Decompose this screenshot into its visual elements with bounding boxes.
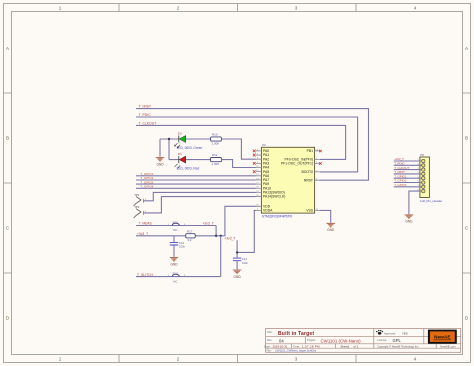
wire T_GPIO3 to PA9: [136, 183, 256, 185]
svg-text:GND: GND: [327, 228, 335, 232]
svg-text:BOOT0: BOOT0: [302, 170, 314, 174]
svg-text:R18: R18: [173, 272, 179, 276]
wire header pin4: [394, 173, 422, 175]
capacitor C14: [233, 257, 249, 270]
wire T_GPIO1 to PA6: [136, 175, 256, 177]
wire R11 to PA4: [221, 160, 256, 168]
svg-text:Built in Target: Built in Target: [278, 331, 314, 337]
svg-text:LED, 0603, Green: LED, 0603, Green: [177, 146, 203, 150]
resistor R17: [186, 230, 195, 242]
svg-text:Project:: Project:: [307, 338, 316, 342]
svg-text:NewAE.com: NewAE.com: [440, 345, 456, 349]
svg-text:of 1: of 1: [354, 345, 359, 349]
wire VSS to GND: [320, 210, 331, 222]
svg-text:1x8_Pin_Header: 1x8_Pin_Header: [420, 199, 442, 203]
svg-text:1.00K: 1.00K: [212, 141, 220, 145]
svg-text:GND: GND: [170, 262, 178, 266]
pin stubs U2 right: [315, 151, 320, 211]
svg-text:100n: 100n: [179, 245, 185, 249]
wire T_GLITCH: [136, 276, 221, 278]
svg-text:D5: D5: [178, 131, 182, 135]
svg-text:2.2: 2.2: [188, 238, 192, 242]
svg-text:1.00K: 1.00K: [212, 162, 220, 166]
svg-text:PF1-OSC_OUT(PF1): PF1-OSC_OUT(PF1): [281, 162, 313, 166]
svg-text:Time:: Time:: [293, 345, 300, 349]
svg-text:T_CLKOUT: T_CLKOUT: [139, 121, 157, 125]
wire TP2 to PA14: [143, 197, 256, 213]
ground GND header: [405, 215, 413, 224]
ground GND under C13: [170, 258, 178, 267]
wire T_CLKOUT to PF0: [136, 125, 346, 159]
svg-text:R10: R10: [212, 132, 218, 136]
svg-text:4: 4: [414, 357, 417, 362]
svg-text:100n: 100n: [242, 261, 248, 265]
svg-text:1:07:28 PM: 1:07:28 PM: [302, 345, 320, 349]
resistor R10: [211, 132, 222, 145]
svg-text:2019-10-31: 2019-10-31: [273, 345, 288, 349]
svg-text:D6: D6: [178, 152, 182, 156]
svg-text:NC: NC: [173, 279, 177, 283]
pin numbers connector: [417, 159, 419, 191]
svg-text:C14: C14: [242, 257, 248, 261]
svg-text:Title:: Title:: [267, 330, 273, 334]
connector pins: [422, 159, 425, 193]
svg-text:+3v3_T: +3v3_T: [137, 232, 148, 236]
svg-text:C13: C13: [179, 241, 185, 245]
node junction glitch branch: [220, 235, 222, 237]
svg-text:File:: File:: [267, 349, 272, 353]
resistor R18 NC: [168, 272, 187, 284]
wire header pin8 to GND: [409, 191, 422, 214]
svg-text:U2: U2: [262, 143, 266, 147]
wire T_PDIC to BOOT0: [136, 117, 358, 172]
svg-text:04: 04: [279, 338, 284, 343]
svg-text:LED, 0603, Red: LED, 0603, Red: [177, 167, 200, 171]
pin numbers U2 right: [316, 149, 319, 211]
svg-text:R17: R17: [187, 230, 193, 234]
svg-text:T_GPIO4: T_GPIO4: [140, 185, 153, 189]
wire +3v3_T row to VDD: [136, 206, 256, 236]
title block: [266, 329, 461, 353]
wire D6 to R11: [186, 159, 211, 161]
svg-text:2: 2: [177, 357, 180, 362]
svg-text:CW1101 (CW-Nano): CW1101 (CW-Nano): [321, 338, 362, 343]
wire D5 to R10: [186, 138, 211, 140]
wire T_nRST to NRST: [136, 109, 369, 181]
test point TP2: [134, 205, 147, 218]
approved paw icon: [376, 330, 383, 335]
svg-text:GND: GND: [156, 162, 164, 166]
svg-text:B: B: [6, 136, 9, 141]
svg-text:Sheet1: Sheet1: [341, 345, 350, 349]
pin numbers U2 left: [256, 149, 259, 211]
svg-text:TP1: TP1: [134, 193, 140, 197]
wire TP1 to PA13: [143, 192, 256, 200]
resistor R11: [211, 153, 222, 166]
svg-text:R11: R11: [212, 153, 218, 157]
node junction C14: [236, 251, 238, 253]
svg-text:1: 1: [59, 357, 62, 362]
wire T_GPIO2 to PA7: [136, 179, 256, 181]
svg-text:R16: R16: [173, 220, 179, 224]
microcontroller U2 STM32F030F4P6TR: [261, 143, 314, 218]
svg-text:License:: License:: [377, 338, 387, 342]
wire header pin7: [394, 186, 422, 188]
wire R18 to +3v3 branch: [220, 236, 222, 277]
svg-text:T_GPIO3: T_GPIO3: [394, 183, 407, 187]
LED D5 green: [175, 131, 203, 150]
svg-text:1: 1: [59, 5, 62, 10]
svg-text:Approved:: Approved:: [384, 332, 396, 336]
wire R10 to PA2: [221, 139, 256, 159]
svg-text:T_nRST: T_nRST: [139, 105, 152, 109]
svg-text:YES: YES: [402, 332, 408, 336]
svg-text:B: B: [465, 136, 468, 141]
wire +3v3_T to VDDA and C14: [237, 210, 256, 257]
svg-text:+3v3_T: +3v3_T: [224, 237, 235, 241]
ground GND under C14: [233, 270, 241, 279]
no-connect X marks left pins: [253, 150, 256, 174]
svg-text:4: 4: [414, 5, 417, 10]
svg-text:PB1: PB1: [307, 149, 314, 153]
svg-text:3: 3: [295, 357, 298, 362]
test point TP1: [134, 193, 147, 206]
svg-text:2: 2: [177, 5, 180, 10]
wire R16 to +3v3_T: [215, 226, 217, 236]
node junction LED common: [168, 138, 170, 140]
svg-text:VDDA: VDDA: [263, 209, 273, 213]
svg-text:Copyright © NewAE Technology I: Copyright © NewAE Technology Inc.: [377, 345, 419, 349]
svg-text:GPL: GPL: [393, 338, 402, 343]
wire LED common to GND: [160, 139, 179, 160]
wire T_GPIO4 to PA10: [136, 187, 256, 189]
svg-text:NRST: NRST: [304, 178, 313, 182]
node junction R17 out: [215, 235, 217, 237]
no-connect X marks right pins PB1 PF1: [319, 150, 322, 165]
svg-text:CW1101_CWNano_target.SchDoc: CW1101_CWNano_target.SchDoc: [275, 349, 317, 353]
svg-text:P8: P8: [420, 153, 424, 157]
ground GND under LEDs: [156, 158, 164, 167]
LED D6 red: [175, 152, 200, 171]
wire header pin1: [394, 160, 422, 162]
NewAE logo: [428, 330, 457, 344]
capacitor C13: [170, 236, 186, 257]
pin stubs U2 left: [256, 151, 262, 211]
connector P8 1x8 header: [420, 153, 442, 203]
svg-text:NC: NC: [173, 228, 177, 232]
svg-text:TP2: TP2: [134, 205, 140, 209]
svg-text:Rev:: Rev:: [267, 338, 273, 342]
svg-text:PA14(SWCLK): PA14(SWCLK): [263, 195, 285, 199]
svg-text:GND: GND: [405, 220, 413, 224]
svg-text:Date:: Date:: [264, 345, 271, 349]
pin names U2 left: [263, 149, 285, 213]
wire header pin2: [394, 164, 422, 166]
svg-text:STM32F030F4P6TR: STM32F030F4P6TR: [262, 215, 293, 219]
ground GND at VSS: [327, 223, 335, 232]
svg-text:VSS: VSS: [306, 209, 314, 213]
wire header pin5: [394, 177, 422, 179]
svg-text:GND: GND: [234, 275, 242, 279]
svg-text:T_PDIC: T_PDIC: [139, 113, 152, 117]
svg-text:T_GLITCH: T_GLITCH: [137, 273, 154, 277]
wire header pin6: [394, 182, 422, 184]
wire header pin3: [394, 169, 422, 171]
svg-text:T_MEAS: T_MEAS: [139, 222, 153, 226]
svg-text:3: 3: [295, 5, 298, 10]
svg-text:+3v3_T: +3v3_T: [203, 222, 214, 226]
pin names U2 right: [281, 149, 314, 213]
wire T_MEAS: [136, 225, 216, 227]
resistor R16 NC: [168, 220, 187, 232]
